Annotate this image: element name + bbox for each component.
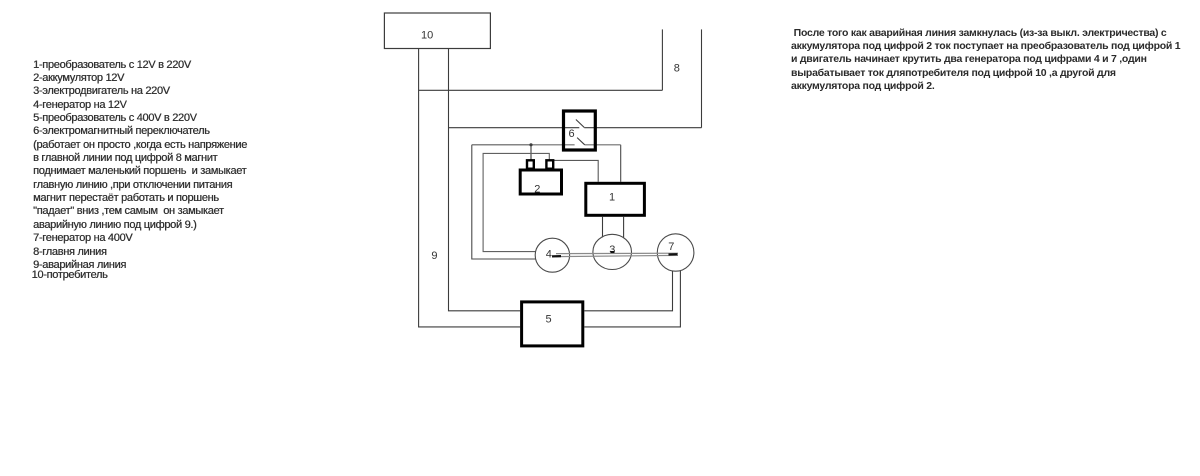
svg-text:8: 8 (674, 62, 680, 74)
svg-text:1: 1 (609, 192, 615, 204)
generator circle 4 (535, 238, 569, 272)
battery terminal left (527, 160, 534, 168)
wire: main line 8 left vertical (661, 29, 663, 90)
motor circle 3 (593, 234, 632, 269)
battery box 2 (520, 170, 561, 194)
shaft connecting 4-3-7 (556, 253, 678, 256)
converter box 5 (522, 302, 583, 346)
svg-text:5: 5 (546, 313, 552, 325)
svg-text:4: 4 (546, 248, 552, 260)
electromagnetic switch box 6 (564, 111, 596, 150)
wires: generator 7 to converter 5 (584, 271, 680, 327)
wire: battery loop inner (483, 153, 549, 251)
generator circle 7 (657, 234, 694, 271)
wire: battery right terminal to inverter 1 (552, 160, 598, 181)
consumer box 10 (384, 13, 490, 49)
junction node on battery feed (529, 143, 532, 146)
shaft end cap left (552, 255, 561, 257)
shaft center mark (611, 251, 615, 253)
wire: left drop from box 10 (emergency line 9) (419, 49, 520, 327)
switch blade upper (576, 120, 584, 128)
wire: battery loop outer (through lower contact) (472, 145, 621, 259)
inverter box 1 (586, 183, 645, 215)
wire: main line through switch (upper contact) (449, 127, 702, 129)
svg-text:6: 6 (569, 128, 575, 140)
svg-text:7: 7 (668, 241, 674, 253)
svg-text:10: 10 (421, 30, 433, 42)
svg-text:3: 3 (609, 244, 615, 256)
wire: junction to battery left terminal (530, 145, 532, 160)
svg-text:9: 9 (431, 250, 437, 262)
switch blade lower (577, 138, 585, 145)
wires: inverter 1 to motor 3 (603, 217, 624, 238)
svg-text:2: 2 (534, 183, 540, 195)
wire: right drop from box 10 (449, 49, 521, 311)
description paragraph (791, 27, 1180, 93)
shaft end cap right (669, 253, 678, 256)
battery terminal right (546, 160, 553, 168)
legend text block (33, 59, 247, 273)
wire: upper horizontal to main line (419, 89, 663, 91)
wire: main line 8 right vertical (701, 29, 703, 127)
